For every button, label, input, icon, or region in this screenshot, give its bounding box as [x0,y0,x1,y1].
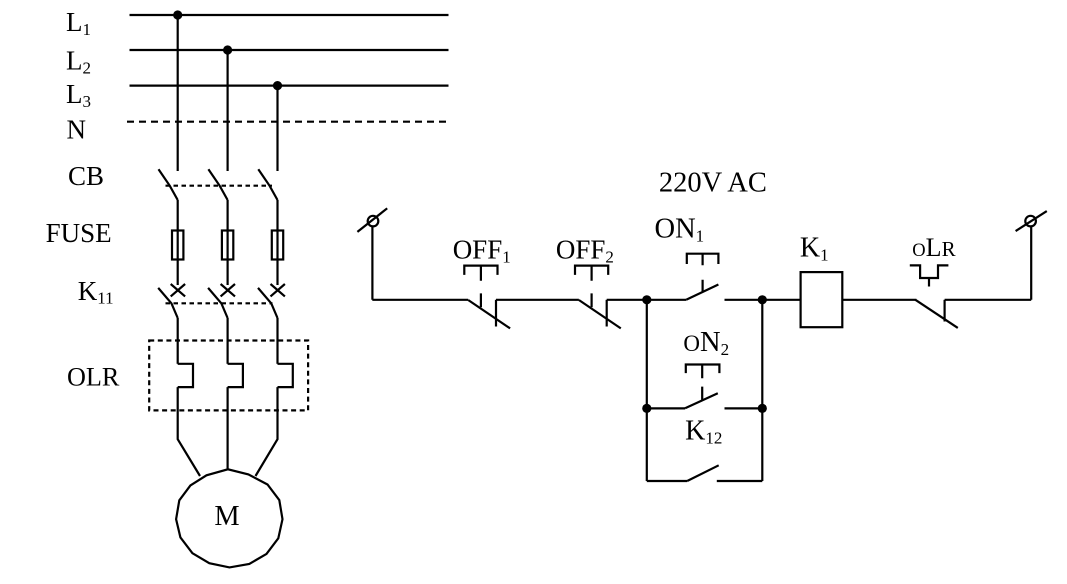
svg-text:K1: K1 [800,232,829,264]
wire CB to K11 pole 1 [177,200,179,285]
pushbutton ON1 NO contact blade [686,285,718,300]
fuse F3 body [272,231,283,260]
svg-text:FUSE: FUSE [46,218,112,248]
svg-text:ON2: ON2 [683,327,729,359]
contactor K11 pole 3 fixed contact x-mark [271,284,285,296]
neutral bus N (dashed) [127,121,449,123]
node D junction dot [758,404,767,413]
wire node C to ON2 [647,407,685,409]
fuse F1 body [172,231,183,260]
wire L1 drop to CB [177,15,179,171]
wire right terminal up [1030,226,1032,300]
contactor coil K1 [801,272,843,327]
wire K12 row left [647,480,687,482]
left supply terminal (circle with slash) [368,216,379,227]
phase bus L2 [130,49,449,51]
contactor K11 pole 1 fixed contact x-mark [171,284,185,296]
wire left rail to OFF1 [372,299,468,301]
wire CB to K11 pole 2 [227,200,229,285]
auxiliary contact K12 NO blade [687,465,719,481]
pushbutton OFF2 actuator [575,266,608,308]
wire left terminal down [371,226,373,300]
overload relay OLR enclosure (dashed box) [149,341,308,411]
wire ON1 to node B [725,299,763,301]
wire node B to K1 coil [762,299,800,301]
svg-text:N: N [67,114,87,144]
contactor K11 pole 2 blade [208,288,228,318]
svg-text:L1: L1 [66,7,91,39]
svg-text:ON1: ON1 [655,213,705,245]
contactor K11 pole 2 fixed contact x-mark [221,284,235,296]
wire L3 drop to CB [276,86,278,171]
svg-text:OFF2: OFF2 [556,234,614,266]
junction dot L3 tap [273,81,282,90]
wire ON2 to node D [725,407,763,409]
OLR NC contact blade [915,300,957,328]
wire K11 to OLR pole 2 [227,318,229,364]
wire OLR to motor phase 3 [256,387,278,476]
breaker CB pole 2 blade [208,169,227,200]
branch right vertical (node B down to K12 row) [761,300,763,481]
pushbutton ON2 actuator [686,365,720,400]
pushbutton OFF1 fixed contact bar [495,300,497,327]
breaker CB pole 3 blade [258,169,277,200]
wire OLR contact to right terminal [945,299,1032,301]
wire OFF2 to node A [607,299,647,301]
svg-text:K12: K12 [685,416,722,448]
svg-text:M: M [214,501,239,532]
svg-text:OFF1: OFF1 [453,234,511,266]
wire CB to K11 pole 3 [276,200,278,285]
svg-text:L2: L2 [66,45,91,77]
svg-text:220V AC: 220V AC [659,168,767,199]
right supply terminal (circle with slash) [1025,216,1036,227]
wire K12 row right [717,480,763,482]
pushbutton OFF2 NC contact blade [579,300,621,328]
node A junction dot [642,295,651,304]
motor M body (polygon circle) [176,469,282,567]
pushbutton OFF2 fixed contact bar [606,300,608,327]
OLR heater element phase 3 [278,364,293,387]
svg-text:OLR: OLR [67,363,120,392]
wire K11 to OLR pole 3 [276,318,278,364]
branch left vertical (node A down to K12 row) [646,300,648,481]
pushbutton OFF1 NC contact blade [468,300,510,328]
wire K11 to OLR pole 1 [177,318,179,364]
wire OFF1 to OFF2 [496,299,579,301]
wire K1 coil to OLR contact [842,299,916,301]
OLR fixed contact bar [943,300,945,322]
breaker CB pole 1 blade [159,169,178,200]
OLR heater element phase 1 [178,364,193,387]
contactor K11 pole 1 blade [158,288,178,318]
wire OLR to motor phase 2 [227,387,229,469]
junction dot L1 tap [173,10,182,19]
fuse F2 body [222,231,233,260]
pushbutton OFF1 actuator [464,266,497,308]
node B junction dot [758,295,767,304]
OLR heater element phase 2 [228,364,243,387]
svg-text:K11: K11 [78,276,114,308]
phase bus L1 [130,14,449,16]
svg-text:OLR: OLR [912,233,955,262]
svg-text:CB: CB [68,161,104,191]
OLR trip actuator symbol [910,265,949,286]
svg-text:L3: L3 [66,79,91,111]
contactor K11 pole 3 blade [258,288,278,318]
wire L2 drop to CB [227,50,229,171]
pushbutton ON1 actuator [687,254,719,292]
contactor K11 mechanical link (dashed) [166,302,273,304]
wire OLR to motor phase 1 [178,387,200,476]
junction dot L2 tap [223,45,232,54]
breaker CB mechanical link (dashed) [166,185,273,187]
node C junction dot [642,404,651,413]
phase bus L3 [130,84,449,86]
wire node A to ON1 [647,299,686,301]
pushbutton ON2 NO contact blade [685,393,718,408]
